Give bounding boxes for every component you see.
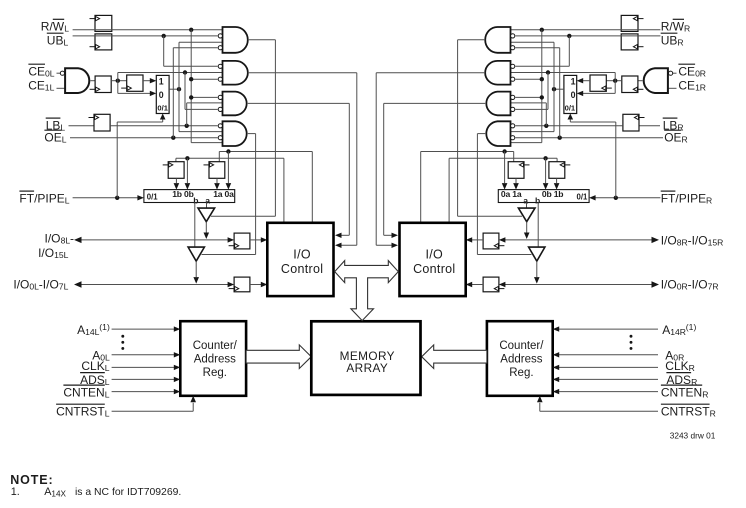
bubble G4R in3 [511, 136, 515, 140]
wire R/WL vertical [190, 30, 192, 143]
junction R/WL [189, 28, 193, 32]
bubble G2R in1 [511, 64, 515, 68]
flip-flop FFAR (CE reg 1) [622, 76, 638, 93]
junction UBL [162, 34, 166, 38]
wire 1bR arrow [556, 178, 558, 183]
svg-text:I/O: I/O [426, 247, 444, 261]
svg-text:Counter/: Counter/ [193, 340, 238, 352]
wire muxR out [554, 88, 564, 90]
wire CLKR [558, 366, 659, 368]
wire CNTENL [112, 391, 176, 393]
flip-flop FFCR (b pipeline) [549, 162, 565, 179]
junction R/WR [540, 28, 544, 32]
wire T1L out to I/O bus [205, 222, 207, 233]
svg-text:3243 drw 01: 3243 drw 01 [670, 431, 716, 441]
bus I/O Control to Memory (T-shaped outline arrow) [335, 261, 399, 321]
bubble CE0R input [669, 71, 673, 75]
and-gate G4L [223, 121, 247, 146]
svg-text:a: a [523, 196, 528, 206]
wire UBR [515, 35, 660, 37]
wire CNTRSTL [112, 410, 194, 412]
block I/O Control R [400, 223, 466, 296]
wire CE0L [57, 72, 61, 74]
wire OER to gate1 in4 [559, 48, 561, 138]
wire FFAL out [111, 80, 127, 82]
svg-text:Address: Address [194, 353, 236, 365]
wire FFBR out to mux 1 [582, 80, 590, 82]
wire G4R output to tri-state enable [477, 133, 485, 135]
and-gate G1R [485, 27, 510, 53]
wire FT/PIPER [594, 197, 660, 199]
svg-text:1.: 1. [11, 486, 20, 498]
tri-state buffer T2R (lower byte out) [529, 247, 545, 261]
wire LBL out to gate4 [110, 125, 218, 127]
svg-text:0: 0 [571, 90, 576, 100]
bubble G1L in2 [218, 34, 222, 38]
and-gate G2R [485, 61, 510, 85]
wire FFAR out [606, 80, 622, 82]
wire UBR to gate2 [568, 36, 570, 66]
wire reg-bR to buffer [537, 203, 539, 248]
tri-state buffer T1R (upper byte out) [518, 208, 535, 222]
wire R/WR vertical [541, 30, 543, 143]
svg-text:0b 1b: 0b 1b [542, 189, 563, 199]
wire reg-aR to buffer [526, 203, 528, 209]
wire A0R [558, 354, 659, 356]
wire CNTENR [558, 391, 659, 393]
wire A14R [558, 328, 659, 330]
svg-text:NOTE:: NOTE: [10, 473, 53, 487]
bubble G1L in4 [218, 46, 222, 50]
wire I/O upper bus R [503, 239, 656, 241]
wire 0aL arrow [227, 152, 229, 184]
wire CEL bypass to mux 0 [117, 81, 119, 94]
wire I/O lower bus R [503, 284, 656, 286]
wire 1aR arrow [515, 178, 517, 183]
flip-flop FFBL (CE reg 2) [127, 75, 143, 91]
wire G1R output to tri-state enable [458, 39, 486, 41]
svg-text:CNTRSTL: CNTRSTL [56, 404, 110, 418]
svg-text:Counter/: Counter/ [499, 340, 544, 352]
svg-text:0/1: 0/1 [157, 104, 168, 113]
flip-flop FFCL (b pipeline) [168, 162, 184, 179]
flip-flop FFEL (input reg upper) [234, 233, 250, 249]
wire G3L output to I/O control [248, 102, 349, 104]
svg-text:0/1: 0/1 [147, 192, 159, 201]
block I/O Control L [267, 223, 333, 296]
wire LBL up to gate3 in2 [186, 103, 188, 126]
wire CEL line-B to gate2 [117, 73, 119, 81]
wire FT/PIPEL [73, 197, 139, 199]
junction LBL [185, 124, 189, 128]
svg-text:I/O8L-: I/O8L- [45, 231, 75, 245]
wire FT/PIPER to mux select [615, 122, 617, 198]
bubble G4R in1 [511, 124, 515, 128]
ellipsis address R [630, 335, 633, 338]
wire 0bL arrow [186, 158, 188, 183]
block Counter/Address Reg L [180, 321, 246, 396]
junction 0bR [543, 156, 547, 160]
junction FT/PIPER [614, 196, 618, 200]
pipeline register REGL [144, 190, 235, 203]
junction 0bL [185, 156, 189, 160]
svg-text:1b 0b: 1b 0b [172, 189, 193, 199]
bubble G2R in3 [511, 77, 515, 81]
junction muxL out [177, 87, 181, 91]
wire T2L out to I/O bus [195, 261, 197, 277]
svg-text:0/1: 0/1 [577, 192, 589, 201]
wire G3R output to I/O control [384, 102, 486, 104]
wire 0bR arrow [545, 158, 547, 183]
junction muxR out [552, 87, 556, 91]
bubble G3L in3 [218, 107, 222, 111]
wire OEL to gate1 in4 [172, 48, 174, 138]
svg-text:CNTENL: CNTENL [63, 385, 109, 399]
svg-text:0/1: 0/1 [565, 104, 576, 113]
block MEMORY ARRAY [311, 321, 420, 395]
wire G4L output to tri-state enable [248, 133, 256, 135]
flip-flop FF2L (UB register) [95, 34, 112, 50]
svg-text:Reg.: Reg. [509, 367, 533, 379]
wire reg-aL to buffer [206, 203, 208, 209]
wire G1L output to tri-state enable [248, 39, 276, 41]
flip-flop FF1L (R/W register) [95, 15, 112, 31]
wire UBL to gate2 [163, 36, 165, 66]
wire LBR up to gate3 in2 [545, 103, 547, 126]
junction OER [558, 136, 562, 140]
svg-text:b: b [193, 196, 198, 206]
wire FT/PIPEL to mux select [116, 122, 118, 198]
bubble G1R in2 [511, 34, 515, 38]
mux M1R (pipeline select) [564, 75, 577, 113]
wire 1aL arrow [216, 178, 218, 183]
and-gate G3L [223, 92, 247, 116]
and-gate G4R [486, 121, 510, 146]
wire OEL [70, 137, 218, 139]
wire G2R output to I/O control [376, 72, 485, 74]
bubble G1R in4 [511, 46, 515, 50]
wire line-BR to gate3 in3 [547, 73, 549, 110]
bubble CE0L input [60, 71, 64, 75]
flip-flop FFAL (CE reg 1) [95, 76, 111, 93]
junction FFAR out node [613, 79, 617, 83]
bubble G3L in1 [218, 95, 222, 99]
ellipsis address L [121, 335, 124, 338]
wire a-feedL from I/O control [219, 151, 312, 153]
flip-flop FF1R (R/W register) [621, 15, 638, 31]
flip-flop FF2R (UB register) [621, 34, 638, 50]
flip-flop FFBR (CE reg 2) [590, 75, 606, 91]
junction OEL [171, 136, 175, 140]
junction line-BR [546, 70, 550, 74]
svg-text:1: 1 [571, 77, 576, 87]
bubble G3R in3 [511, 107, 515, 111]
wire I/O upper bus L [78, 239, 231, 241]
wire LBR [639, 125, 660, 127]
wire FFFR to I/O control [471, 284, 484, 286]
pipeline register REGR [498, 190, 589, 203]
mux M1L (pipeline select) [156, 75, 169, 113]
wire FFER to I/O control [471, 239, 484, 241]
and-gate U-CEL [65, 68, 89, 93]
wire I/O lower bus L [78, 284, 231, 286]
wire T1R out to I/O bus [526, 222, 528, 233]
wire CE-gateR to FFA [638, 80, 643, 82]
and-gate G1L [223, 27, 248, 53]
wire CER line-B to gate2 [614, 73, 616, 81]
wire CE0R [673, 72, 677, 74]
wire CE1R [668, 87, 677, 89]
svg-text:0: 0 [159, 90, 164, 100]
wire A14L [112, 328, 176, 330]
junction LBR [544, 124, 548, 128]
flip-flop FFFL (input reg lower) [234, 277, 250, 292]
svg-text:FT/PIPER: FT/PIPER [661, 191, 713, 205]
junction UBR [567, 34, 571, 38]
bubble G4L in1 [218, 124, 222, 128]
junction FT/PIPEL [115, 196, 119, 200]
svg-text:ARRAY: ARRAY [346, 361, 388, 375]
svg-text:1a 0a: 1a 0a [213, 189, 234, 199]
svg-text:Address: Address [500, 353, 542, 365]
wire FFBL out to mux 1 [143, 80, 151, 82]
bus Counter to Memory R [422, 345, 487, 369]
wire CLKL [112, 366, 176, 368]
wire b-feedR from I/O control [449, 157, 557, 159]
flip-flop FF-LBL [94, 114, 110, 131]
bus Counter to Memory L [246, 345, 311, 369]
wire muxL out [169, 88, 179, 90]
wire a-feedR from I/O control [421, 151, 514, 153]
flip-flop FFER (input reg upper) [483, 233, 499, 249]
wire CE1L [57, 87, 66, 89]
flip-flop FFDL (a pipeline) [209, 162, 225, 179]
wire LBR out to gate4 [515, 125, 623, 127]
svg-text:CNTRSTR: CNTRSTR [661, 404, 716, 418]
wire reg-bL to buffer [194, 203, 196, 248]
wire A0L [112, 354, 176, 356]
junction 0aR [502, 149, 506, 153]
bubble G3R in1 [511, 95, 515, 99]
wire ADSL [112, 378, 176, 380]
wire line-BL to gate3 in3 [184, 73, 186, 110]
wire OER [515, 137, 663, 139]
wire R/WR [511, 29, 661, 31]
bubble G2L in1 [218, 64, 222, 68]
svg-text:FT/PIPEL: FT/PIPEL [19, 191, 69, 205]
and-gate G2L [223, 61, 248, 85]
junction 0aL [226, 149, 230, 153]
wire CNTRSTR [540, 410, 658, 412]
and-gate G3R [486, 92, 510, 116]
junction line-BL [183, 70, 187, 74]
wire b-feedL from I/O control [176, 157, 284, 159]
wire LBL [69, 125, 95, 127]
wire 0aR arrow [504, 152, 506, 184]
tri-state buffer T2L (lower byte out) [188, 247, 204, 261]
svg-text:I/O: I/O [293, 247, 311, 261]
wire T2R out to I/O bus [536, 261, 538, 277]
svg-text:CNTENR: CNTENR [661, 385, 709, 399]
svg-text:b: b [535, 196, 540, 206]
junction FFAL out node [116, 79, 120, 83]
wire G2L output to I/O control [248, 72, 357, 74]
wire CE-selR vertical [553, 42, 555, 131]
wire FFFL to I/O control [250, 284, 263, 286]
wire FFEL to I/O control [250, 239, 263, 241]
wire CE-selL vertical [178, 42, 180, 131]
wire CER bypass to mux 0 [614, 81, 616, 94]
wire UBL [73, 35, 218, 37]
svg-text:Control: Control [281, 262, 323, 276]
wire 1bL arrow [175, 178, 177, 183]
and-gate U-CER [644, 68, 668, 93]
wire CE-gateL to FFA [90, 80, 95, 82]
bubble G2L in3 [218, 77, 222, 81]
flip-flop FFDR (a pipeline) [508, 162, 524, 179]
flip-flop FFFR (input reg lower) [483, 277, 499, 292]
svg-text:0a 1a: 0a 1a [501, 189, 522, 199]
flip-flop FF-LBR [623, 114, 639, 131]
bubble G4L in3 [218, 136, 222, 140]
svg-text:Control: Control [413, 262, 455, 276]
wire R/WL [73, 29, 223, 31]
svg-text:1: 1 [159, 77, 164, 87]
tri-state buffer T1L (upper byte out) [198, 208, 215, 222]
block Counter/Address Reg R [487, 321, 553, 396]
svg-text:Reg.: Reg. [203, 367, 227, 379]
wire ADSR [558, 378, 659, 380]
